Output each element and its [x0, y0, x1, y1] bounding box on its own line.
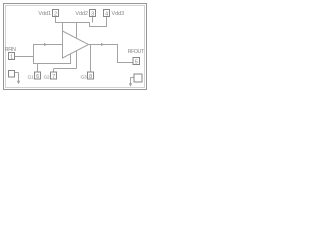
svg-text:5: 5 — [135, 59, 138, 65]
wire bias feed x76 — [76, 23, 78, 69]
wire Vdd3 drop — [106, 17, 108, 27]
pin 8 number — [89, 74, 92, 80]
label Vdd2 — [75, 11, 88, 17]
label Vdd3 — [112, 11, 125, 17]
wire output horizontal — [89, 44, 119, 46]
pin box 1 — [9, 53, 15, 60]
wire input riser node A — [33, 44, 35, 64]
label G1 — [28, 74, 35, 80]
wire amp input — [33, 44, 62, 46]
pin 1 number — [10, 54, 13, 60]
wire amp bottom tap — [70, 53, 72, 64]
label RFIN — [5, 47, 16, 53]
pin box 4 — [104, 10, 110, 17]
pin box 8 — [88, 72, 94, 79]
wire left paddle link — [15, 73, 19, 82]
wire to RFOUT pin — [118, 62, 134, 64]
wire Vdd rail top — [55, 22, 90, 24]
pin 3 number — [91, 11, 94, 17]
svg-text:G3: G3 — [81, 74, 88, 80]
svg-text:G2: G2 — [44, 74, 51, 80]
svg-text:7: 7 — [52, 74, 55, 80]
ground arrow right — [129, 83, 132, 86]
pin 6 number — [36, 74, 39, 80]
wire right paddle link — [131, 78, 135, 85]
pin box 7 — [51, 72, 57, 79]
label RFOUT — [128, 49, 145, 55]
svg-text:1: 1 — [10, 54, 13, 60]
svg-text:8: 8 — [89, 74, 92, 80]
wire ground rail A — [34, 63, 71, 65]
wire Vdd rail 2 — [89, 26, 107, 28]
wire rail to amp top — [62, 23, 64, 32]
paddle pad right — [134, 74, 142, 82]
svg-text:Vdd3: Vdd3 — [112, 11, 125, 17]
label G3 — [81, 74, 88, 80]
wire G3 riser — [90, 45, 92, 73]
pin box 2 — [53, 10, 59, 17]
pin 2 number — [54, 11, 57, 17]
pin box 6 — [35, 72, 41, 79]
arrow input direction — [44, 43, 47, 46]
paddle pad left — [9, 71, 15, 78]
ground arrow left — [17, 81, 20, 84]
arrow output direction — [101, 43, 104, 46]
svg-text:6: 6 — [36, 74, 39, 80]
svg-text:2: 2 — [54, 11, 57, 17]
svg-text:3: 3 — [91, 11, 94, 17]
svg-text:RFIN: RFIN — [5, 47, 16, 53]
label G2 — [44, 74, 51, 80]
wire ground rail B — [54, 68, 77, 70]
pin box 5 — [133, 58, 140, 65]
svg-text:G1: G1 — [28, 74, 35, 80]
wire rail step — [89, 23, 91, 27]
pin 7 number — [52, 74, 55, 80]
wire G1 stub — [37, 64, 39, 73]
pin box 3 — [90, 10, 96, 17]
pin 5 number — [135, 59, 138, 65]
svg-text:RFOUT: RFOUT — [128, 49, 145, 55]
wire G2 stub — [53, 69, 55, 73]
wire output drop — [117, 45, 119, 64]
wire Vdd1 drop — [55, 17, 57, 23]
svg-text:Vdd2: Vdd2 — [75, 11, 88, 17]
svg-text:Vdd1: Vdd1 — [38, 11, 51, 17]
op-amp U1 — [63, 31, 89, 58]
pin 4 number — [105, 11, 108, 17]
wire Vdd2 drop — [92, 17, 94, 23]
wire RFIN stub — [15, 56, 34, 58]
svg-text:4: 4 — [105, 11, 108, 17]
label Vdd1 — [38, 11, 51, 17]
